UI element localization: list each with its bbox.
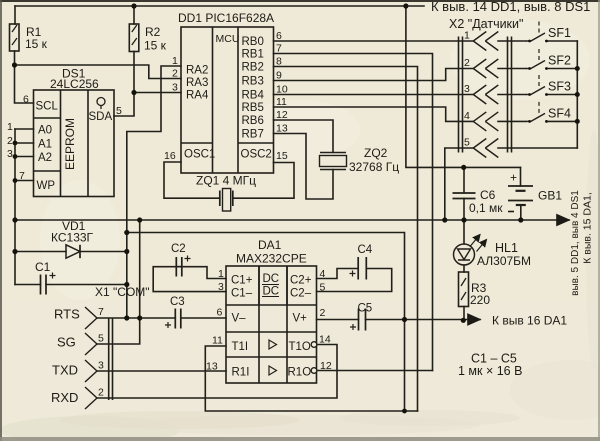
node VD1 anode	[12, 249, 17, 254]
svg-text:2: 2	[320, 307, 326, 319]
wire SF right bus	[576, 41, 578, 148]
svg-text:C1+: C1+	[231, 275, 253, 287]
wire GB1 top terminal	[520, 167, 522, 186]
svg-text:1: 1	[464, 30, 470, 42]
svg-text:16: 16	[164, 150, 176, 162]
wire X2 row5 to GND rail	[445, 148, 459, 220]
connector X2 chevrons row5	[473, 139, 498, 158]
node A2 rail	[13, 154, 18, 159]
svg-text:RB1: RB1	[242, 49, 264, 61]
wire RB3 to X2 row2	[274, 69, 459, 81]
wire C6 top	[463, 167, 465, 193]
svg-text:C6: C6	[480, 188, 496, 202]
svg-text:RA2: RA2	[186, 65, 208, 77]
svg-text:RA3: RA3	[186, 77, 208, 89]
wire RB4 to X2 row3	[274, 94, 459, 96]
svg-text:13: 13	[276, 123, 288, 135]
svg-text:11: 11	[276, 96, 287, 108]
svg-text:8: 8	[276, 56, 282, 68]
node top rail R2	[131, 3, 136, 8]
svg-text:12: 12	[320, 360, 332, 372]
wire C4 loop pin5	[317, 269, 392, 292]
wire GND rail horizontal	[15, 219, 569, 221]
wire RB5 to X2 row4	[274, 107, 459, 121]
node SF3 contact	[528, 93, 531, 96]
connector X2 body lines left	[459, 37, 463, 153]
svg-text:+: +	[510, 171, 517, 185]
svg-text:OSC2: OSC2	[241, 149, 272, 161]
connector X1 body lines	[109, 318, 113, 400]
svg-text:RB3: RB3	[242, 76, 264, 88]
wire SCL line to RA3	[15, 65, 182, 79]
wire C2 loop pin1	[176, 267, 226, 279]
node C6 bottom rail	[461, 217, 466, 222]
capacitor C2	[176, 256, 190, 277]
svg-text:7: 7	[98, 306, 104, 318]
wire A0 stub	[15, 128, 34, 130]
svg-text:RB6: RB6	[242, 115, 264, 127]
wire A1 stub	[15, 142, 34, 144]
svg-text:7: 7	[276, 43, 282, 55]
connector X1 chevron TXD	[85, 360, 97, 382]
svg-text:3: 3	[218, 281, 224, 293]
svg-text:0,1 мк: 0,1 мк	[469, 201, 503, 215]
MCU DD1 block	[181, 27, 274, 173]
buffer triangle R1	[269, 366, 277, 375]
node SF2 contact	[528, 67, 531, 70]
svg-text:R2: R2	[145, 25, 161, 39]
svg-text:выв. 5 DD1, выв 4 DS1: выв. 5 DD1, выв 4 DS1	[570, 190, 581, 296]
wire VD1 cathode side	[80, 251, 127, 253]
wire X2 row4 segments	[459, 120, 474, 122]
wire RB2 down to T1I route	[274, 67, 418, 412]
svg-text:R1I: R1I	[232, 367, 250, 379]
capacitor C4	[350, 257, 367, 280]
switch SF1	[526, 22, 545, 42]
wire SCL down to DS1 pin6	[15, 65, 34, 103]
svg-text:ZQ2: ZQ2	[364, 146, 388, 160]
wire VD1 anode side	[15, 251, 66, 253]
node SF2 bus	[575, 66, 580, 71]
svg-text:EEPROM: EEPROM	[63, 118, 77, 170]
wire T1O to RXD	[97, 345, 337, 399]
svg-text:К выв 16 DA1: К выв 16 DA1	[492, 314, 567, 328]
node row5 GND rail	[442, 217, 447, 222]
node C6 top	[461, 165, 466, 170]
wire X2 row5 segments	[459, 147, 474, 149]
wire OSC1 pin16 to ZQ1	[164, 162, 220, 198]
resistor R3	[459, 272, 469, 307]
svg-text:MAX232CPE: MAX232CPE	[236, 252, 307, 266]
svg-text:WP: WP	[37, 180, 56, 192]
svg-text:R1O: R1O	[288, 367, 312, 379]
svg-text:32768 Гц: 32768 Гц	[349, 160, 399, 174]
wire C5 to vyv16 arrow	[366, 319, 481, 321]
svg-text:X1 "COM": X1 "COM"	[95, 285, 150, 299]
svg-text:DC: DC	[263, 273, 280, 285]
node SDA R2	[131, 90, 136, 95]
wire X2 row2 segments	[459, 68, 474, 70]
svg-text:RA4: RA4	[186, 90, 209, 102]
svg-text:14: 14	[319, 334, 331, 346]
svg-text:C2+: C2+	[290, 275, 312, 287]
wire X2 row3 segments	[459, 94, 474, 96]
node SF4 contact	[528, 120, 531, 123]
wire C1 right	[46, 284, 127, 286]
node SF1 contact	[528, 40, 531, 43]
wire SF1 right	[546, 40, 577, 42]
svg-text:12: 12	[276, 109, 288, 121]
connector X2 body lines right	[508, 37, 512, 153]
svg-text:A2: A2	[38, 152, 52, 164]
svg-text:RB4: RB4	[242, 90, 265, 102]
svg-text:C2–: C2–	[290, 288, 312, 300]
svg-text:T1I: T1I	[232, 341, 249, 353]
node top rail VDD drop	[403, 3, 408, 8]
svg-text:RB0: RB0	[242, 36, 264, 48]
wire RTS V- line left	[97, 317, 175, 319]
wire C6 bottom	[463, 199, 465, 221]
wire sense to DA1 V+ column	[127, 233, 405, 412]
node GB1 bottom rail	[518, 217, 523, 222]
wire VDD drop to battery line	[406, 6, 521, 167]
connector X2 chevrons row4	[473, 112, 498, 131]
svg-text:5: 5	[464, 137, 470, 149]
svg-text:1: 1	[172, 55, 178, 67]
svg-text:SF1: SF1	[548, 26, 571, 40]
node SF3 bus	[575, 92, 580, 97]
wire SF4 right	[546, 120, 577, 122]
svg-text:V+: V+	[293, 313, 308, 325]
svg-text:2: 2	[7, 135, 13, 147]
wire TXD to R1I	[97, 370, 226, 372]
wire SDA line to RA4	[134, 92, 181, 94]
wire GB1 bottom terminal	[520, 205, 522, 220]
capacitor C1	[41, 273, 56, 295]
svg-text:SCL: SCL	[36, 101, 59, 113]
node sense line DA1 branch	[124, 230, 129, 235]
capacitor C5	[350, 309, 366, 331]
wire A2 stub	[15, 156, 34, 158]
svg-text:2: 2	[464, 57, 470, 69]
svg-text:RB7: RB7	[242, 129, 264, 141]
svg-text:1 мк × 16 В: 1 мк × 16 В	[458, 364, 522, 378]
svg-text:К выв. 14 DD1, выв. 8 DS1: К выв. 14 DD1, выв. 8 DS1	[431, 0, 590, 14]
svg-text:ZQ1 4 МГц: ZQ1 4 МГц	[196, 174, 256, 188]
svg-text:6: 6	[217, 307, 223, 319]
wire R2 bottom to SDA node	[133, 52, 135, 93]
svg-text:C5: C5	[358, 303, 373, 315]
node V+ column top	[402, 317, 407, 322]
svg-text:АЛ307БМ: АЛ307БМ	[477, 254, 531, 268]
svg-text:5: 5	[98, 333, 104, 345]
svg-text:SG: SG	[57, 335, 76, 350]
svg-text:OSC1: OSC1	[184, 149, 215, 161]
wire T1I route	[205, 346, 417, 411]
wire SF2 right	[546, 68, 577, 70]
svg-text:1: 1	[218, 268, 224, 280]
svg-text:4: 4	[320, 268, 326, 280]
svg-text:DC: DC	[263, 286, 280, 298]
svg-text:3: 3	[464, 83, 470, 95]
wire OSC2 pin15 to ZQ1	[233, 163, 294, 199]
battery GB1	[508, 186, 533, 205]
wire R2 top stub	[133, 6, 135, 24]
node RTS GND V-	[137, 315, 142, 320]
connector X2 chevrons row1	[473, 32, 498, 51]
LED HL1	[454, 235, 487, 266]
capacitor C3	[165, 309, 181, 329]
svg-text:К выв. 15 DA1,: К выв. 15 DA1,	[582, 192, 594, 264]
wire RB1 down to R1O	[274, 54, 433, 371]
svg-text:A1: A1	[38, 139, 52, 151]
wire V+ pin2 line to C5	[317, 319, 359, 321]
wire C2 loop pin3	[153, 267, 226, 292]
svg-text:RB2: RB2	[242, 62, 264, 74]
svg-text:9: 9	[276, 70, 282, 82]
wire SF3 right	[546, 94, 577, 96]
svg-text:11: 11	[212, 335, 223, 347]
svg-text:MCU: MCU	[216, 33, 240, 45]
resistor R2	[129, 24, 139, 52]
node C1 right	[124, 282, 129, 287]
svg-text:4: 4	[464, 110, 470, 122]
switch SF2	[526, 49, 545, 69]
svg-text:15: 15	[276, 150, 288, 162]
node RTS sense	[124, 315, 129, 320]
svg-text:15 к: 15 к	[144, 39, 167, 53]
svg-text:C1–: C1–	[231, 288, 253, 300]
crystal ZQ2	[320, 153, 347, 170]
wire RA2 sense line	[127, 66, 181, 318]
capacitor C6	[453, 193, 476, 199]
svg-text:220: 220	[470, 293, 490, 307]
svg-text:SF3: SF3	[548, 80, 571, 94]
svg-text:RTS: RTS	[54, 307, 80, 322]
node R3 bottom	[461, 318, 466, 323]
svg-text:C3: C3	[170, 296, 185, 308]
svg-text:3: 3	[7, 148, 13, 160]
svg-text:V–: V–	[232, 313, 247, 325]
svg-text:5: 5	[320, 282, 326, 294]
zener diode VD1	[66, 245, 80, 258]
svg-text:C1: C1	[35, 260, 51, 274]
EEPROM DS1 block	[34, 90, 115, 197]
wire V- line right of C3	[181, 317, 226, 319]
wire SDA down to DS1 pin5	[114, 93, 134, 117]
wire VDD top rail	[15, 5, 424, 7]
svg-text:КС133Г: КС133Г	[51, 231, 94, 245]
wire R1O stub	[317, 370, 433, 372]
wire ZQ2 bottom to RB7	[274, 134, 334, 200]
wire R1 top stub	[14, 6, 16, 24]
svg-text:1: 1	[7, 121, 13, 133]
connector X1 chevron RTS	[85, 307, 97, 329]
switch SF4	[526, 102, 545, 122]
resistor R1	[10, 24, 20, 51]
buffer triangle T1	[269, 340, 277, 349]
svg-text:RB5: RB5	[242, 102, 264, 114]
svg-text:2: 2	[172, 68, 178, 80]
wire GND drop to SG	[97, 220, 140, 344]
wire HL1 R3 string	[463, 220, 465, 244]
svg-text:SF4: SF4	[548, 107, 571, 121]
wire C4 loop pin4	[317, 269, 359, 279]
svg-text:3: 3	[98, 360, 104, 372]
connector X2 chevrons row2	[473, 59, 498, 78]
wire R1 bottom to SCL node	[14, 51, 16, 65]
svg-text:3: 3	[172, 82, 178, 94]
svg-text:7: 7	[19, 170, 25, 182]
connector X1 chevron SG	[85, 333, 97, 355]
node WP rail	[13, 178, 18, 183]
MAX232 DA1 block	[226, 266, 317, 383]
svg-text:24LC256: 24LC256	[50, 77, 99, 91]
svg-text:6: 6	[23, 94, 29, 106]
svg-text:C2: C2	[171, 243, 186, 255]
node SCL R1	[12, 62, 17, 67]
node GND rail left	[12, 217, 17, 222]
svg-text:6: 6	[276, 30, 282, 42]
wire RB0 to X2 row1	[274, 40, 459, 42]
node VD1 cathode	[124, 249, 129, 254]
node GND drop rail	[137, 217, 142, 222]
svg-text:15 к: 15 к	[25, 37, 48, 51]
svg-text:SDA: SDA	[89, 111, 113, 123]
wire GND left rail	[14, 129, 16, 285]
node SF4 bus	[575, 119, 580, 124]
connector X2 chevrons row3	[473, 85, 498, 104]
wire RB6 down to ZQ2	[274, 120, 334, 153]
svg-text:GB1: GB1	[538, 189, 562, 203]
svg-text:10: 10	[276, 84, 288, 96]
svg-text:X2 "Датчики": X2 "Датчики"	[449, 17, 523, 31]
node V+ column bottom	[402, 409, 407, 414]
svg-text:5: 5	[116, 105, 122, 117]
svg-text:C4: C4	[358, 244, 373, 256]
svg-text:RXD: RXD	[51, 390, 78, 405]
wire X2 row1 segments	[459, 40, 474, 42]
svg-text:SF2: SF2	[548, 54, 571, 68]
svg-text:13: 13	[206, 361, 218, 373]
node A1 rail	[13, 141, 18, 146]
svg-text:DD1 PIC16F628A: DD1 PIC16F628A	[178, 11, 274, 25]
svg-text:T1O: T1O	[289, 341, 311, 353]
connector X1 chevron RXD	[85, 387, 97, 409]
switch SF3	[526, 75, 545, 95]
svg-text:2: 2	[98, 387, 104, 399]
wire WP stub	[15, 180, 34, 182]
crystal ZQ1	[220, 189, 233, 212]
svg-text:DA1: DA1	[258, 238, 282, 252]
svg-text:TXD: TXD	[52, 363, 78, 378]
svg-text:HL1: HL1	[495, 241, 518, 255]
svg-text:A0: A0	[38, 125, 52, 137]
wire C1 left	[15, 284, 41, 286]
